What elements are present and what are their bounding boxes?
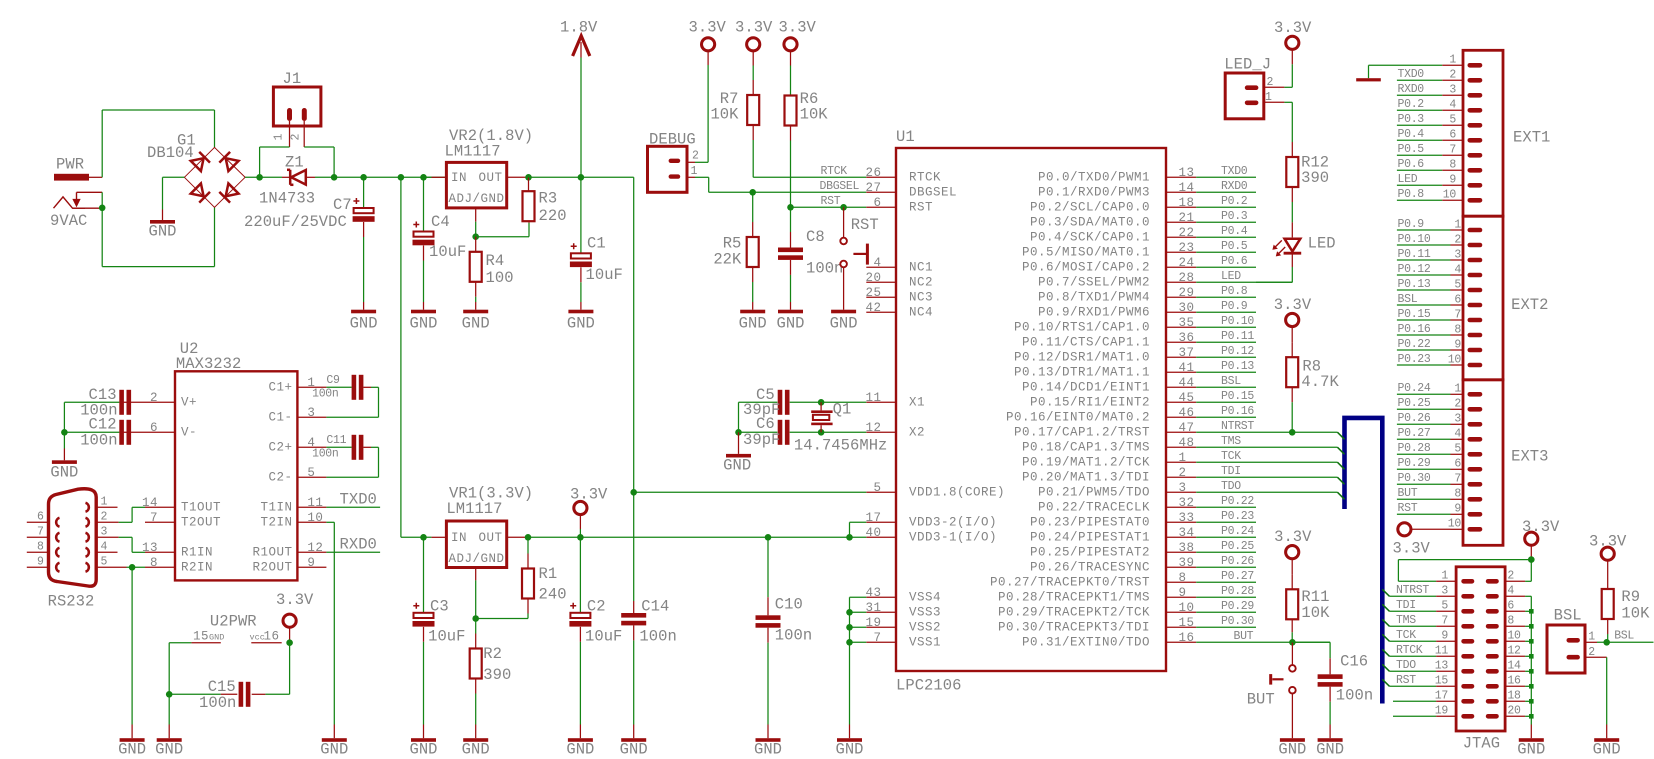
svg-text:100n: 100n — [639, 628, 676, 646]
EXT3 pin 2 net P0.25 — [1397, 397, 1482, 411]
svg-text:6: 6 — [1507, 600, 1514, 613]
wire VR1 feed to IN — [401, 536, 432, 538]
U2 pin 6 V- — [145, 421, 197, 440]
svg-text:10: 10 — [1179, 601, 1195, 615]
svg-text:40: 40 — [865, 526, 881, 540]
svg-text:C10: C10 — [775, 596, 803, 614]
capacitor C11 100n (charge pump) — [312, 434, 378, 478]
node VR1 OUT junction (R1) — [525, 534, 532, 541]
svg-text:V-: V- — [181, 426, 197, 440]
svg-text:NC4: NC4 — [909, 306, 933, 320]
svg-text:7: 7 — [873, 631, 881, 645]
wire net X2 — [739, 431, 867, 433]
svg-text:6: 6 — [1454, 458, 1461, 471]
bus entry right at y=611.3 — [1382, 604, 1389, 611]
svg-text:P0.3/SDA/MAT0.0: P0.3/SDA/MAT0.0 — [1030, 216, 1150, 230]
svg-text:U1: U1 — [896, 128, 915, 146]
svg-text:25: 25 — [865, 286, 881, 300]
svg-text:R2: R2 — [483, 645, 502, 663]
svg-text:23: 23 — [1179, 241, 1195, 255]
svg-text:RST: RST — [821, 195, 841, 208]
capacitor C3 10uF — [413, 537, 466, 724]
wire R12 to LED — [1291, 202, 1293, 237]
ground crystal — [723, 432, 751, 474]
svg-text:41: 41 — [1179, 361, 1195, 375]
node C6 junction — [735, 429, 742, 436]
ground DB9 pin5 — [118, 725, 146, 759]
svg-text:P0.16: P0.16 — [1221, 405, 1254, 418]
U1 pin 33 P0.23/PIPESTAT0 — [1030, 511, 1196, 530]
svg-text:8: 8 — [37, 541, 44, 554]
U1 pin 24 P0.6/MOSI/CAP0.2 — [1022, 256, 1196, 275]
bus entry left at y=477.3 — [1338, 477, 1345, 484]
svg-text:390: 390 — [483, 666, 511, 684]
node C7 junction — [360, 174, 367, 181]
U1 pin 30 P0.9/RXD1/PWM6 — [1038, 301, 1196, 320]
wire net TXD0 from U2 — [326, 491, 380, 509]
connector JTAG body — [1456, 567, 1505, 753]
wire C5/C6 ground leg — [738, 402, 740, 432]
svg-text:14: 14 — [1507, 660, 1521, 673]
svg-text:P0.22: P0.22 — [1398, 338, 1431, 351]
svg-text:17: 17 — [1435, 690, 1448, 703]
bus JTAG signals — [1345, 418, 1383, 704]
resistor R4 100 — [470, 237, 514, 302]
svg-text:BUT: BUT — [1247, 691, 1275, 709]
U2 pin 9 R2OUT — [252, 556, 326, 575]
svg-text:9: 9 — [1441, 630, 1448, 643]
svg-text:1: 1 — [101, 496, 108, 509]
ground R4 — [462, 302, 490, 332]
svg-text:C7: C7 — [333, 196, 352, 214]
svg-text:LED: LED — [1398, 173, 1418, 186]
svg-text:RTCK: RTCK — [1396, 644, 1423, 657]
svg-text:P0.25/PIPESTAT2: P0.25/PIPESTAT2 — [1030, 546, 1150, 560]
svg-text:P0.15: P0.15 — [1398, 308, 1431, 321]
wire net P0.23 at U1 pin 33 — [1196, 510, 1256, 523]
svg-text:TMS: TMS — [1221, 435, 1241, 448]
node BSL junction — [1603, 639, 1610, 646]
svg-text:19: 19 — [1435, 705, 1449, 718]
supply 3.3V circle (VR1) — [570, 486, 608, 538]
svg-text:R2OUT: R2OUT — [252, 561, 292, 575]
svg-text:T2IN: T2IN — [260, 516, 292, 530]
svg-text:P0.20/MAT1.3/TDI: P0.20/MAT1.3/TDI — [1022, 471, 1150, 485]
U1 pin 41 P0.13/DTR1/MAT1.1 — [1014, 361, 1196, 380]
U1 pin 36 P0.11/CTS/CAP1.1 — [1022, 331, 1196, 350]
wire C13 to C12 ground leg — [64, 402, 119, 432]
svg-text:15: 15 — [193, 629, 209, 643]
wire DB9 pin5 to R2IN and ground — [127, 566, 146, 568]
svg-text:P0.28/TRACEPKT1/TMS: P0.28/TRACEPKT1/TMS — [998, 591, 1150, 605]
wire AC bottom rail: jack to bridge bottom — [102, 192, 214, 266]
svg-text:C1+: C1+ — [268, 381, 292, 395]
connector X2 RS232 DB9 — [27, 489, 127, 611]
svg-text:BSL: BSL — [1554, 607, 1582, 625]
wire DB9 pin5 ground drop — [131, 567, 133, 724]
svg-text:GND: GND — [723, 457, 751, 475]
svg-text:TXD0: TXD0 — [1398, 68, 1425, 81]
U2 pin 2 V+ — [145, 391, 197, 410]
connector LED_J — [1224, 56, 1284, 119]
svg-text:P0.29/TRACEPKT2/TCK: P0.29/TRACEPKT2/TCK — [998, 606, 1150, 620]
svg-text:P0.6/MOSI/CAP0.2: P0.6/MOSI/CAP0.2 — [1022, 261, 1150, 275]
wire R6 to RST net — [790, 141, 792, 208]
resistor R8 4.7K — [1286, 342, 1339, 402]
svg-text:BUT: BUT — [1398, 487, 1418, 500]
EXT3 pin 5 net P0.28 — [1397, 442, 1482, 456]
svg-text:7: 7 — [1454, 473, 1461, 486]
ground C1 — [567, 302, 595, 332]
svg-text:X2: X2 — [909, 426, 925, 440]
svg-text:JTAG: JTAG — [1463, 735, 1500, 753]
svg-text:2: 2 — [101, 511, 108, 524]
svg-text:P0.16/EINT0/MAT0.2: P0.16/EINT0/MAT0.2 — [1006, 411, 1150, 425]
U1 pin 2 P0.20/MAT1.3/TDI — [1022, 466, 1196, 485]
svg-text:18: 18 — [1179, 196, 1195, 210]
resistor R1 240 — [522, 537, 567, 618]
U1 pin 25 NC3 — [865, 286, 933, 305]
svg-text:1: 1 — [1588, 631, 1595, 644]
svg-text:GND: GND — [155, 740, 183, 758]
svg-text:1: 1 — [1449, 54, 1456, 67]
svg-text:GND: GND — [567, 314, 595, 332]
svg-text:P0.25: P0.25 — [1398, 397, 1431, 410]
JTAG pin 6 — [1486, 600, 1525, 614]
supply 3.3V circle (R6) — [779, 19, 817, 66]
svg-text:P0.4/SCK/CAP0.1: P0.4/SCK/CAP0.1 — [1030, 231, 1150, 245]
wire 1.8V arrow to rail — [580, 58, 582, 178]
svg-text:P0.24/PIPESTAT1: P0.24/PIPESTAT1 — [1030, 531, 1150, 545]
svg-text:6: 6 — [150, 421, 158, 435]
node C12 ground junction — [61, 429, 68, 436]
svg-text:P0.1/RXD0/PWM3: P0.1/RXD0/PWM3 — [1038, 186, 1150, 200]
svg-text:39: 39 — [1179, 556, 1195, 570]
svg-text:VSS1: VSS1 — [909, 636, 941, 650]
node C15 left junction — [166, 691, 173, 698]
svg-text:100n: 100n — [80, 431, 117, 449]
wire VDD3-2 riser — [850, 522, 867, 537]
wire R7 to RTCK net — [752, 140, 754, 177]
wire net NTRST at U1 pin 47 — [1196, 420, 1337, 433]
svg-text:1: 1 — [1441, 570, 1448, 583]
JTAG pin 14 — [1486, 660, 1525, 674]
svg-text:10uF: 10uF — [585, 628, 622, 646]
ground C3 — [409, 725, 437, 759]
JTAG pin 8 — [1486, 615, 1525, 629]
svg-text:P0.8: P0.8 — [1221, 285, 1248, 298]
svg-text:P0.26: P0.26 — [1398, 412, 1431, 425]
svg-text:2: 2 — [1588, 646, 1595, 659]
svg-text:2: 2 — [692, 150, 699, 163]
svg-text:P0.9/RXD1/PWM6: P0.9/RXD1/PWM6 — [1038, 306, 1150, 320]
node DB9 pin5 junction — [129, 564, 136, 571]
svg-text:P0.4: P0.4 — [1221, 225, 1248, 238]
wire net TMS at U1 pin 48 — [1196, 435, 1337, 448]
U1 pin 21 P0.3/SDA/MAT0.0 — [1030, 211, 1196, 230]
svg-text:P0.27/TRACEPKT0/TRST: P0.27/TRACEPKT0/TRST — [990, 576, 1150, 590]
svg-text:IN: IN — [451, 531, 467, 545]
wire net TDO at U1 pin 3 — [1196, 480, 1337, 493]
ground C2 — [566, 725, 594, 759]
svg-text:J1: J1 — [283, 70, 302, 88]
EXT3 pin 3 net P0.26 — [1397, 412, 1482, 426]
wire net P0.15 at U1 pin 45 — [1196, 390, 1256, 403]
svg-text:P0.24: P0.24 — [1398, 382, 1431, 395]
wire net VDD1.8 core — [634, 491, 867, 493]
svg-text:P0.17/CAP1.2/TRST: P0.17/CAP1.2/TRST — [1014, 426, 1150, 440]
wire DEBUG pin1 to DBGSEL net — [695, 177, 753, 192]
svg-text:100n: 100n — [312, 387, 338, 400]
wire BUT net to C16 — [1292, 642, 1330, 658]
JTAG pin 15 net RST — [1390, 674, 1475, 688]
svg-text:T1IN: T1IN — [260, 501, 292, 515]
capacitor C8 100n — [778, 207, 843, 302]
bus entry left at y=432.3 — [1338, 432, 1345, 439]
wire net BUT at U1 pin 16 — [1196, 630, 1330, 643]
svg-text:TXD0: TXD0 — [1221, 165, 1248, 178]
wire net P0.4 at U1 pin 22 — [1196, 225, 1256, 238]
wire BSL pin2 to ground — [1606, 657, 1608, 724]
U1 pin 43 VSS4 — [865, 586, 941, 605]
wire net P0.22 at U1 pin 32 — [1196, 495, 1256, 508]
U1 pin 12 X2 — [865, 421, 925, 440]
svg-text:GND: GND — [462, 314, 490, 332]
EXT2 pin 2 net P0.10 — [1397, 233, 1482, 247]
svg-text:NTRST: NTRST — [1396, 584, 1429, 597]
U1 pin 26 RTCK — [865, 166, 941, 185]
wire ADJ junction to R3 bottom — [476, 221, 529, 237]
U2 pin 8 R2IN — [145, 556, 213, 575]
U1 pin 48 P0.18/CAP1.3/TMS — [1022, 436, 1196, 455]
node VR1 feed junction — [398, 174, 405, 181]
svg-text:2: 2 — [1449, 69, 1456, 82]
EXT1 pin 8 net P0.6 — [1397, 158, 1482, 172]
svg-text:P0.3: P0.3 — [1221, 210, 1248, 223]
svg-text:11: 11 — [307, 496, 323, 510]
svg-text:15: 15 — [1435, 675, 1449, 688]
svg-text:IN: IN — [451, 171, 467, 185]
svg-text:VSS4: VSS4 — [909, 591, 941, 605]
U1 pin 5 VDD1.8(CORE) — [866, 481, 1005, 500]
U1 pin 8 P0.27/TRACEPKT0/TRST — [990, 571, 1196, 590]
U1 pin 20 NC2 — [865, 271, 933, 290]
capacitor C2 10uF — [569, 537, 622, 724]
svg-text:16: 16 — [264, 629, 280, 643]
svg-text:10: 10 — [1448, 353, 1462, 366]
capacitor C15 100n — [169, 678, 265, 712]
U1 pin 19 VSS2 — [865, 616, 941, 635]
diode LED — [1273, 234, 1335, 255]
svg-text:7: 7 — [1454, 308, 1461, 321]
svg-text:5: 5 — [307, 466, 315, 480]
svg-text:P0.14/DCD1/EINT1: P0.14/DCD1/EINT1 — [1022, 381, 1150, 395]
svg-text:P0.25: P0.25 — [1221, 540, 1254, 553]
svg-text:C1-: C1- — [268, 411, 292, 425]
U1 pin 4 NC1 — [866, 256, 933, 275]
svg-text:15: 15 — [1179, 616, 1195, 630]
svg-text:3: 3 — [1179, 481, 1187, 495]
svg-text:5: 5 — [1454, 278, 1461, 291]
wire net LED at U1 pin 28 — [1196, 270, 1292, 283]
svg-text:5: 5 — [101, 556, 108, 569]
wire net DBGSEL to U1 — [753, 180, 867, 193]
node C1 / 1.8V junction — [578, 174, 585, 181]
svg-text:P0.5: P0.5 — [1398, 143, 1425, 156]
svg-text:C2: C2 — [587, 598, 606, 616]
wire net P0.24 at U1 pin 34 — [1196, 525, 1256, 538]
EXT2 pin 5 net P0.13 — [1397, 278, 1482, 292]
EXT2 pin 3 net P0.11 — [1397, 248, 1482, 262]
svg-text:P0.22/TRACECLK: P0.22/TRACECLK — [1038, 501, 1150, 515]
svg-text:P0.8/TXD1/PWM4: P0.8/TXD1/PWM4 — [1038, 291, 1150, 305]
svg-text:LED: LED — [1221, 270, 1241, 283]
svg-text:P0.23: P0.23 — [1221, 510, 1254, 523]
svg-text:P0.22: P0.22 — [1221, 495, 1254, 508]
svg-text:3.3V: 3.3V — [1274, 528, 1312, 546]
U2 pin 1 C1+ — [268, 376, 326, 395]
svg-text:BSL: BSL — [1614, 629, 1634, 642]
wire net P0.10 at U1 pin 35 — [1196, 315, 1256, 328]
svg-text:R2IN: R2IN — [181, 561, 213, 575]
svg-text:P0.12/DSR1/MAT1.0: P0.12/DSR1/MAT1.0 — [1014, 351, 1150, 365]
svg-text:3: 3 — [1449, 84, 1456, 97]
supply 3.3V circle (U2PWR) — [276, 591, 314, 643]
svg-text:P0.11/CTS/CAP1.1: P0.11/CTS/CAP1.1 — [1022, 336, 1150, 350]
svg-text:39pF: 39pF — [743, 431, 780, 449]
svg-text:11: 11 — [865, 391, 881, 405]
svg-text:GND: GND — [754, 740, 782, 758]
U1 pin 3 P0.21/PWM5/TDO — [1038, 481, 1196, 500]
wire LED cathode to net LED — [1256, 253, 1292, 282]
capacitor C1 10uF — [570, 177, 623, 302]
svg-text:3.3V: 3.3V — [735, 19, 773, 37]
svg-text:C11: C11 — [326, 434, 346, 447]
svg-text:GND: GND — [835, 740, 863, 758]
JTAG pin 19 — [1393, 705, 1474, 719]
U1 pin 37 P0.12/DSR1/MAT1.0 — [1014, 346, 1196, 365]
U1 pin 45 P0.15/RI1/EINT2 — [1030, 391, 1196, 410]
U1 pin 28 P0.7/SSEL/PWM2 — [1038, 271, 1196, 290]
svg-text:6: 6 — [37, 511, 44, 524]
svg-text:2: 2 — [1454, 233, 1461, 246]
wire net P0.6 at U1 pin 24 — [1196, 255, 1256, 268]
resistor R2 390 — [470, 619, 512, 725]
wire U2 T2IN to ground — [326, 522, 334, 724]
wire net P0.27 at U1 pin 8 — [1196, 570, 1256, 583]
svg-text:4: 4 — [873, 256, 881, 270]
svg-text:EXT1: EXT1 — [1513, 129, 1550, 147]
IC U1 LPC2106 body — [896, 128, 1166, 695]
svg-text:3: 3 — [307, 406, 315, 420]
svg-text:8: 8 — [1449, 159, 1456, 172]
JTAG pin 4 — [1486, 585, 1525, 599]
svg-text:T2OUT: T2OUT — [181, 516, 221, 530]
EXT1 pin 7 net P0.5 — [1397, 143, 1482, 157]
svg-text:37: 37 — [1179, 346, 1195, 360]
svg-text:C3: C3 — [430, 598, 449, 616]
svg-text:RXD0: RXD0 — [1221, 180, 1248, 193]
JTAG pin 16 — [1486, 675, 1525, 689]
svg-text:20: 20 — [1507, 705, 1521, 718]
svg-text:P0.26: P0.26 — [1221, 555, 1254, 568]
bus entry right at y=686.3 — [1382, 679, 1389, 686]
svg-text:P0.6: P0.6 — [1221, 255, 1248, 268]
bus entry left at y=492.3 — [1338, 492, 1345, 499]
wire net P0.30 at U1 pin 15 — [1196, 615, 1256, 628]
wire main unregulated rail — [334, 176, 446, 178]
wire VR1 ADJ down — [475, 580, 477, 618]
wire net P0.2 at U1 pin 18 — [1196, 195, 1256, 208]
svg-text:C14: C14 — [641, 598, 669, 616]
node RST / R6 junction — [787, 204, 794, 211]
svg-text:9VAC: 9VAC — [50, 212, 87, 230]
svg-text:ADJ/GND: ADJ/GND — [449, 192, 505, 206]
svg-text:32: 32 — [1179, 496, 1195, 510]
svg-text:17: 17 — [865, 511, 881, 525]
svg-text:VSS3: VSS3 — [909, 606, 941, 620]
wire net P0.16 at U1 pin 46 — [1196, 405, 1256, 418]
wire net P0.5 at U1 pin 23 — [1196, 240, 1256, 253]
ground R5 — [739, 302, 767, 332]
svg-text:NC1: NC1 — [909, 261, 933, 275]
svg-text:P0.3: P0.3 — [1398, 113, 1425, 126]
svg-text:9: 9 — [1454, 503, 1461, 516]
svg-text:3.3V: 3.3V — [1274, 296, 1312, 314]
node VR2 OUT junction (R3) — [525, 174, 532, 181]
bus entry right at y=656.3 — [1382, 649, 1389, 656]
svg-text:NTRST: NTRST — [1221, 420, 1254, 433]
svg-text:45: 45 — [1179, 391, 1195, 405]
U1 pin 42 NC4 — [865, 301, 933, 320]
wire 1.8V to C14 — [633, 492, 635, 613]
svg-text:GND: GND — [1278, 740, 1306, 758]
JTAG pin 12 — [1486, 645, 1525, 659]
svg-text:6: 6 — [873, 196, 881, 210]
svg-text:GND: GND — [776, 314, 804, 332]
bus entry left at y=447.3 — [1338, 447, 1345, 454]
svg-text:R1OUT: R1OUT — [252, 546, 292, 560]
node NTRST junction — [1289, 429, 1296, 436]
bus entry right at y=626.3 — [1382, 619, 1389, 626]
svg-text:U2PWR: U2PWR — [210, 613, 257, 631]
switch BUT (button) — [1247, 642, 1296, 724]
svg-text:LM1117: LM1117 — [445, 143, 501, 161]
U1 pin 18 P0.2/SCL/CAP0.0 — [1030, 196, 1196, 215]
wire VR2 ADJ down — [475, 222, 477, 237]
svg-text:44: 44 — [1179, 376, 1195, 390]
svg-text:8: 8 — [1454, 488, 1461, 501]
svg-text:4.7K: 4.7K — [1301, 373, 1339, 391]
svg-text:P0.23: P0.23 — [1398, 353, 1431, 366]
node JTAG 3.3V junction — [1528, 556, 1535, 563]
U1 pin 31 VSS3 — [865, 601, 941, 620]
ground C4 — [409, 302, 437, 332]
wire U2PWR left pin to C15 — [169, 643, 191, 695]
node BUT junction — [1289, 639, 1296, 646]
ground C12/C13 — [50, 432, 78, 481]
svg-text:P0.31/EXTIN0/TDO: P0.31/EXTIN0/TDO — [1022, 636, 1150, 650]
JTAG pin 13 net TDO — [1390, 659, 1475, 673]
svg-text:1: 1 — [1454, 218, 1461, 231]
svg-text:1: 1 — [1454, 383, 1461, 396]
svg-text:14: 14 — [1179, 181, 1195, 195]
wire net P0.29 at U1 pin 10 — [1196, 600, 1256, 613]
U1 pin 14 P0.1/RXD0/PWM3 — [1038, 181, 1196, 200]
svg-text:GND: GND — [50, 464, 78, 482]
wire J1 pin1 to AC rail — [260, 147, 290, 177]
svg-text:2: 2 — [290, 134, 303, 141]
